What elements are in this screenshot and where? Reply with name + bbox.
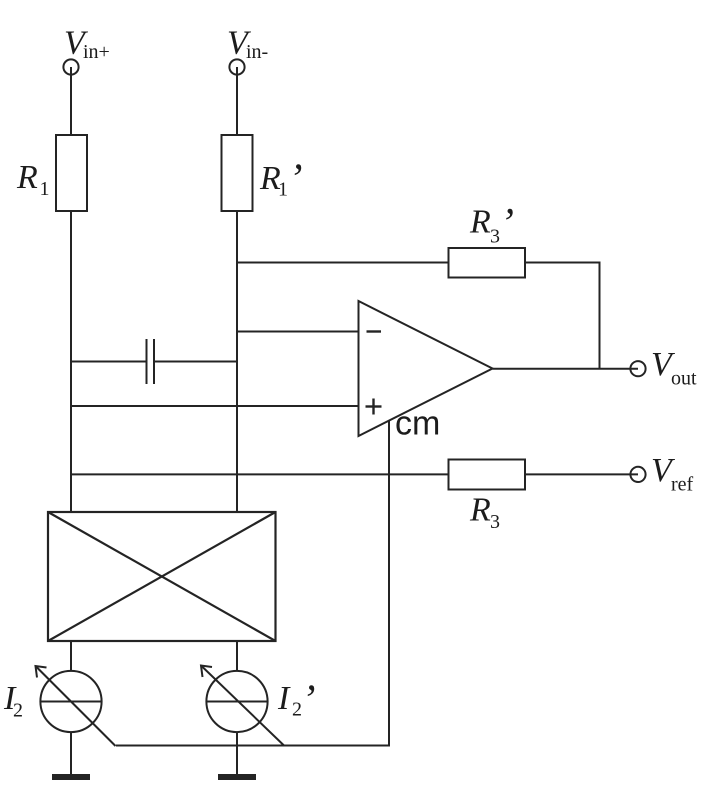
current source I2' <box>206 671 267 732</box>
op-amp plus sign <box>366 399 382 415</box>
label R1 <box>16 159 50 200</box>
svg-text:’: ’ <box>302 678 316 724</box>
op-amp U1 <box>359 301 493 436</box>
svg-text:cm: cm <box>395 405 440 443</box>
wire box to I2 <box>70 641 72 671</box>
wire I2' to ground <box>236 732 238 774</box>
ground left <box>52 774 90 780</box>
label cm <box>395 405 440 443</box>
wire feedback node to R3' <box>237 262 449 264</box>
svg-text:3: 3 <box>490 511 500 533</box>
label Vout <box>651 346 697 390</box>
wire cap right <box>154 361 237 363</box>
svg-text:in-: in- <box>246 41 268 63</box>
op-amp minus sign <box>367 330 382 332</box>
wire box to I2' <box>236 641 238 671</box>
resistor R1 <box>56 135 87 211</box>
wire cap left <box>71 361 147 363</box>
svg-text:’: ’ <box>289 157 303 203</box>
terminal Vin+ <box>63 59 78 74</box>
label I2' <box>277 678 316 724</box>
wire cm vertical <box>116 421 389 746</box>
svg-text:’: ’ <box>500 201 514 247</box>
arrow of I2 <box>36 666 116 746</box>
ground right <box>218 774 256 780</box>
svg-text:1: 1 <box>278 179 288 201</box>
chopper box with X <box>48 512 276 641</box>
svg-text:I: I <box>277 680 291 717</box>
label R3' <box>469 201 514 248</box>
svg-text:R: R <box>16 159 38 196</box>
wire op-amp output <box>493 368 639 370</box>
resistor R3 <box>449 460 526 490</box>
wire R3' to output branch <box>525 263 600 369</box>
arrow of I2' <box>201 666 284 746</box>
capacitor C1 <box>146 339 148 384</box>
label Vin+ <box>64 25 110 64</box>
terminal Vref <box>630 467 645 482</box>
svg-text:3: 3 <box>490 226 500 248</box>
label R1' <box>259 157 303 203</box>
wire I2 to ground <box>70 732 72 774</box>
current source I2 <box>40 671 101 732</box>
svg-text:2: 2 <box>292 699 302 721</box>
svg-text:1: 1 <box>40 178 50 200</box>
label Vref <box>651 452 694 496</box>
wire minus input <box>237 331 359 333</box>
wire plus input <box>71 405 359 407</box>
terminal Vout <box>630 361 645 376</box>
svg-text:in+: in+ <box>83 41 110 63</box>
wire Vin- to R1' <box>236 67 238 135</box>
wire Vin+ to R1 <box>70 67 72 135</box>
terminal Vin- <box>229 59 244 74</box>
label R3 <box>469 492 500 534</box>
label I2 <box>3 680 23 722</box>
svg-text:R: R <box>469 204 491 241</box>
wire Vref line <box>71 473 449 475</box>
svg-text:R: R <box>469 492 491 529</box>
label Vin- <box>227 25 268 64</box>
resistor R1' <box>222 135 253 211</box>
wire right branch R1' to box <box>236 211 238 512</box>
svg-text:ref: ref <box>671 474 694 496</box>
wire R3 to Vref terminal <box>525 473 638 475</box>
resistor R3' <box>449 248 526 278</box>
svg-text:out: out <box>671 368 697 390</box>
svg-text:2: 2 <box>13 700 23 722</box>
wire left branch R1 to box <box>70 211 72 512</box>
